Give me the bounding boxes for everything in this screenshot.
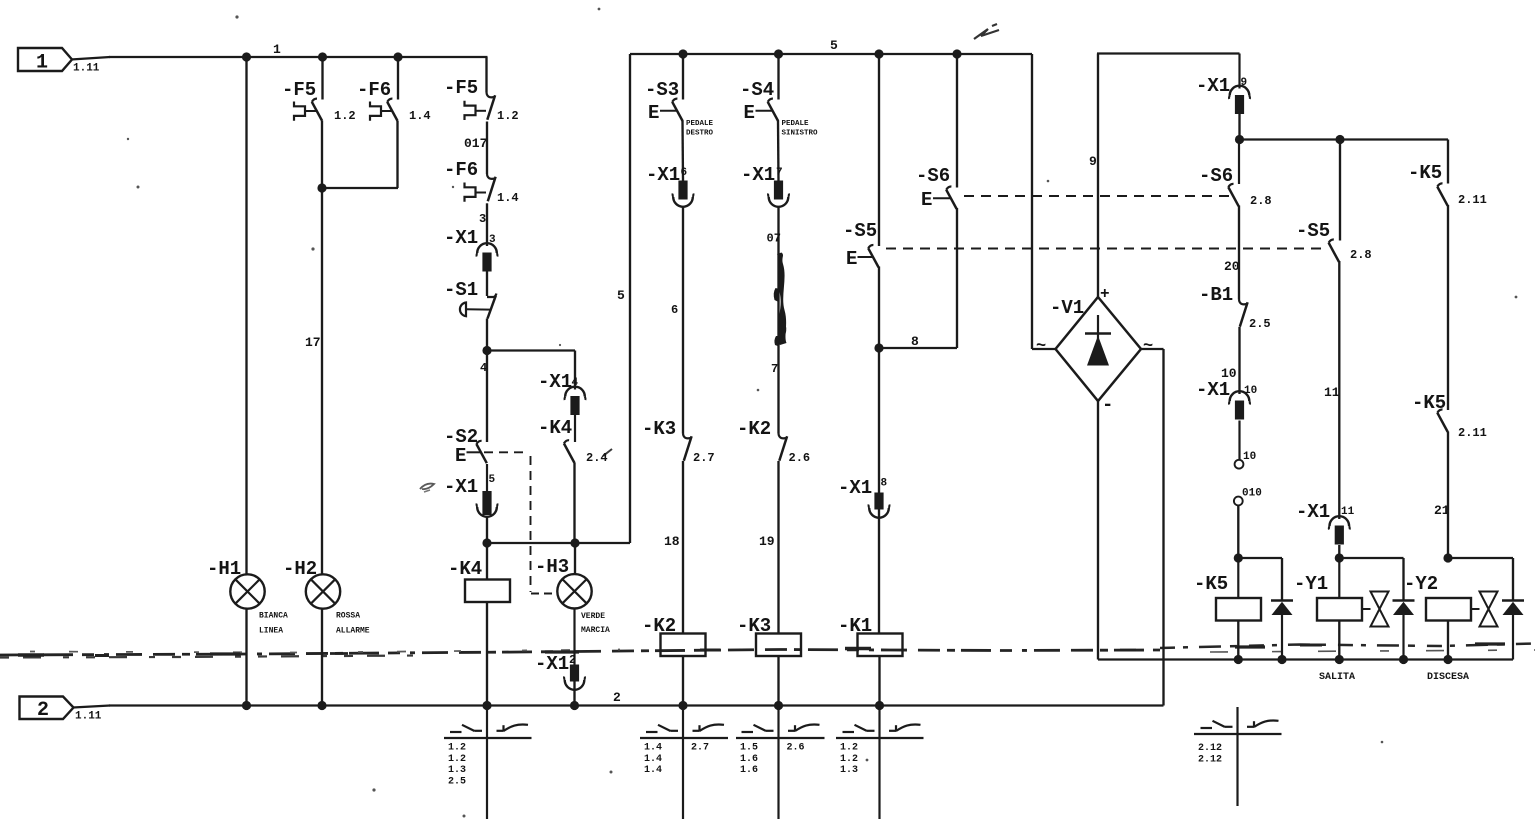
connector pin 010	[1234, 488, 1262, 506]
svg-text:11: 11	[1324, 385, 1340, 400]
svg-text:-X1: -X1	[1296, 501, 1330, 523]
svg-text:010: 010	[1242, 488, 1262, 500]
relay coil K5	[1194, 558, 1261, 621]
contact S6 (NO ref 2.8)	[1199, 140, 1272, 209]
svg-text:-F5: -F5	[282, 79, 316, 101]
node Y2 top junction	[1443, 553, 1452, 562]
svg-text:2.6: 2.6	[787, 743, 805, 754]
bus 2 junction dots	[242, 701, 884, 710]
svg-text:1.4: 1.4	[497, 191, 519, 205]
svg-text:-X1: -X1	[538, 371, 572, 393]
lamp H3 (VERDE MARCIA)	[535, 543, 610, 635]
wire bus 2	[73, 706, 110, 708]
svg-text:2.8: 2.8	[1350, 248, 1372, 262]
svg-text:2: 2	[569, 653, 576, 667]
flyback diode Y1	[1393, 601, 1415, 660]
svg-text:2.7: 2.7	[693, 451, 715, 465]
svg-text:017: 017	[464, 136, 487, 151]
svg-text:1.4: 1.4	[644, 743, 662, 754]
terminal X1:7	[741, 164, 789, 207]
svg-text:1.5: 1.5	[740, 743, 758, 754]
wire S5r to X1:11	[1338, 261, 1340, 519]
wire between K5 contacts	[1447, 205, 1449, 410]
svg-text:1.3: 1.3	[448, 765, 466, 776]
contact K3 NO (ref 2.7)	[642, 418, 715, 465]
svg-text:-K2: -K2	[737, 418, 771, 440]
net flag 1 (line 1, ref 1.11)	[18, 48, 100, 75]
wire V1 minus to DC rail	[1097, 401, 1099, 660]
mechanical link S5 (dashed)	[886, 248, 1326, 250]
svg-text:MARCIA: MARCIA	[581, 626, 610, 635]
svg-text:-Y1: -Y1	[1294, 573, 1328, 595]
wire X1:2 to bus 2	[573, 680, 575, 706]
terminal X1:6	[646, 164, 693, 207]
wire S6r to B1	[1238, 206, 1240, 300]
wire K3 coil to bus 2	[777, 656, 779, 706]
svg-text:11: 11	[1341, 506, 1355, 518]
wire S1 to node 4	[486, 319, 488, 352]
svg-text:E: E	[846, 248, 857, 270]
svg-text:-K1: -K1	[838, 615, 872, 637]
svg-text:-K5: -K5	[1412, 392, 1446, 414]
wire bus 5	[630, 53, 1032, 55]
relay coil K3	[737, 615, 801, 656]
wire X1:9 to node	[1238, 114, 1240, 140]
wire K5 diode branch top	[1238, 557, 1282, 559]
svg-text:1.4: 1.4	[644, 754, 662, 765]
cross-ref table K5	[1236, 707, 1238, 806]
relay coil K2	[642, 615, 706, 656]
switch S6 (E actuator)	[916, 165, 957, 211]
wire K5 coil to rail	[1237, 621, 1239, 660]
wire bus 1	[71, 57, 110, 60]
contact B1 NO (ref 2.5)	[1199, 284, 1271, 331]
svg-text:2.12: 2.12	[1198, 743, 1222, 754]
svg-text:5: 5	[617, 288, 625, 303]
svg-text:1.2: 1.2	[840, 743, 858, 754]
cross-ref table K1	[878, 706, 880, 820]
svg-text:ALLARME: ALLARME	[336, 627, 370, 636]
cross-ref table K2	[682, 706, 684, 820]
switch S5 (E actuator)	[843, 220, 879, 270]
svg-text:-S3: -S3	[645, 79, 679, 101]
svg-text:-F5: -F5	[444, 77, 478, 99]
svg-text:1.2: 1.2	[840, 754, 858, 765]
svg-text:-X1: -X1	[838, 477, 872, 499]
contact K5 lower (NO ref 2.11)	[1412, 392, 1487, 440]
solenoid coil Y1 (SALITA)	[1294, 558, 1362, 683]
wire S5 to node 8	[878, 267, 880, 349]
svg-text:1.2: 1.2	[448, 743, 466, 754]
node 8 junction	[874, 343, 883, 352]
svg-text:7: 7	[776, 167, 783, 179]
svg-text:-S4: -S4	[740, 79, 774, 101]
wire S2 section	[486, 351, 488, 443]
wire S6 column	[956, 54, 958, 188]
svg-text:-S5: -S5	[1296, 220, 1330, 242]
svg-text:~: ~	[1143, 337, 1153, 356]
svg-text:18: 18	[664, 534, 680, 549]
node Y1 top junction	[1335, 553, 1344, 562]
svg-text:-X1: -X1	[535, 653, 569, 675]
svg-text:7: 7	[771, 362, 778, 376]
svg-text:3: 3	[479, 212, 486, 226]
wire node row to line 5 riser	[487, 542, 630, 544]
svg-text:-K4: -K4	[538, 417, 572, 439]
svg-text:1.2: 1.2	[448, 754, 466, 765]
wire K3ctc to K2 coil	[682, 461, 684, 634]
svg-text:SINISTRO: SINISTRO	[782, 130, 819, 138]
wire H1 column	[245, 57, 247, 575]
wire X1:5 to node	[486, 516, 488, 544]
wire K5 contact column	[1447, 140, 1449, 184]
terminal X1:2	[535, 609, 585, 690]
switch S2 (E actuator)	[444, 426, 487, 467]
wire 010 to K5 node	[1237, 506, 1239, 559]
bus 1 junction dots	[242, 52, 403, 61]
svg-text:19: 19	[759, 534, 775, 549]
wire DC minus rail	[1098, 658, 1513, 660]
svg-text:LINEA: LINEA	[259, 627, 283, 636]
wire F5a/H2 column	[321, 57, 323, 100]
switch S1 (stop pushbutton)	[444, 272, 496, 319]
svg-text:4: 4	[572, 377, 579, 389]
svg-text:5: 5	[489, 474, 496, 486]
svg-text:+: +	[1100, 285, 1110, 303]
contact K4 NO (ref 2.4)	[538, 415, 608, 465]
svg-text:1.6: 1.6	[740, 765, 758, 776]
svg-text:1: 1	[36, 52, 48, 75]
DC plus rail junctions	[1235, 135, 1244, 144]
svg-text:2.6: 2.6	[789, 451, 811, 465]
flyback diode Y2	[1502, 601, 1524, 660]
wire DC plus rail	[1240, 138, 1449, 140]
svg-text:1.11: 1.11	[75, 711, 102, 723]
svg-text:2.12: 2.12	[1198, 754, 1222, 765]
cross-ref table K4	[486, 706, 488, 820]
svg-text:-K3: -K3	[642, 418, 676, 440]
svg-text:2.4: 2.4	[586, 451, 608, 465]
svg-text:SALITA: SALITA	[1319, 672, 1355, 683]
svg-text:20: 20	[1224, 259, 1240, 274]
wire S4 column	[777, 54, 779, 100]
svg-text:BIANCA: BIANCA	[259, 612, 288, 621]
svg-text:-F6: -F6	[357, 79, 391, 101]
switch S3 (PEDALE DESTRO)	[645, 79, 714, 138]
svg-text:E: E	[744, 102, 755, 124]
wire S5r column	[1339, 140, 1341, 241]
svg-text:2.5: 2.5	[1249, 317, 1271, 331]
svg-text:1.11: 1.11	[73, 63, 100, 75]
svg-text:1.4: 1.4	[644, 765, 662, 776]
svg-text:-B1: -B1	[1199, 284, 1233, 306]
svg-text:2.5: 2.5	[448, 776, 466, 787]
svg-text:1.4: 1.4	[409, 109, 431, 123]
svg-text:-H1: -H1	[207, 558, 241, 580]
terminal X1:8	[838, 477, 889, 518]
svg-text:-V1: -V1	[1050, 297, 1084, 319]
terminal X1:10	[1196, 379, 1257, 420]
svg-text:1.2: 1.2	[334, 109, 356, 123]
svg-text:-X1: -X1	[1196, 75, 1230, 97]
lamp H1 (BIANCA LINEA)	[207, 558, 288, 636]
mechanical link S6 (dashed)	[964, 195, 1230, 197]
svg-text:-S6: -S6	[1199, 165, 1233, 187]
svg-text:1: 1	[273, 42, 281, 57]
valve symbol Y1	[1362, 592, 1389, 627]
connector pin 10	[1235, 421, 1257, 469]
terminal X1:3	[444, 227, 497, 272]
wire F5/F6 main column	[485, 57, 487, 93]
svg-text:2: 2	[613, 690, 621, 705]
terminal X1:9	[1196, 54, 1250, 115]
node row 543 junctions	[482, 538, 491, 547]
svg-text:2.11: 2.11	[1458, 426, 1487, 440]
node K5 top junction	[1234, 553, 1243, 562]
wire Y2 diode branch top	[1448, 557, 1513, 559]
terminal X1:5	[444, 464, 497, 517]
wire X1:11 to Y1 node	[1338, 545, 1340, 559]
svg-text:-X1: -X1	[444, 227, 478, 249]
terminal X1:11	[1296, 501, 1355, 545]
wire F6a branch	[397, 57, 399, 100]
svg-text:10: 10	[1243, 451, 1256, 463]
svg-text:-X1: -X1	[1196, 379, 1230, 401]
svg-text:9: 9	[1241, 77, 1248, 89]
svg-text:6: 6	[681, 167, 688, 179]
wire X1:8 to K1 coil	[878, 508, 880, 634]
contact K5 upper (NO ref 2.11)	[1408, 162, 1487, 207]
wire K4 contact to node	[573, 462, 575, 543]
wire B1 to X1:10	[1238, 327, 1240, 394]
svg-text:E: E	[455, 445, 466, 467]
wire line 9 (V1 plus riser)	[1097, 54, 1099, 298]
junction 17/F6a	[317, 183, 326, 192]
mechanical link S2 to H3 (dashed)	[484, 451, 529, 453]
wire K2 coil to bus 2	[682, 656, 684, 706]
svg-text:8: 8	[881, 478, 888, 490]
svg-text:PEDALE: PEDALE	[782, 120, 810, 128]
bridge rectifier V1	[1036, 285, 1153, 416]
svg-text:-S2: -S2	[444, 426, 478, 448]
svg-text:2.7: 2.7	[691, 743, 709, 754]
svg-text:8: 8	[911, 334, 919, 349]
DC minus rail junction dots	[1234, 655, 1453, 664]
valve symbol Y2	[1471, 592, 1498, 627]
contact F6 main (NC ref 1.4)	[444, 159, 519, 205]
lamp H2 (ROSSA ALLARME)	[283, 558, 370, 636]
svg-text:2.8: 2.8	[1250, 194, 1272, 208]
svg-text:VERDE: VERDE	[581, 612, 605, 621]
svg-text:E: E	[921, 189, 932, 211]
wire Y2 coil to rail	[1447, 621, 1449, 660]
wire S6 to node8 row	[956, 208, 958, 348]
wire S5 column	[878, 54, 880, 246]
contact F5 aux (NC ref 1.2)	[282, 79, 356, 123]
contact F6 aux (NC ref 1.4)	[357, 79, 431, 123]
net flag 2 (line 2, ref 1.11)	[20, 697, 102, 723]
svg-text:10: 10	[1244, 385, 1257, 397]
svg-text:-Y2: -Y2	[1404, 573, 1438, 595]
wire node4 branch to X1:4	[487, 349, 575, 351]
svg-text:-K4: -K4	[448, 558, 482, 580]
ink blot artifact on wire 7	[777, 253, 787, 346]
svg-text:6: 6	[671, 303, 678, 317]
bus 5 junction dots	[678, 49, 961, 58]
svg-text:-X1: -X1	[444, 476, 478, 498]
flyback diode K5	[1271, 601, 1293, 660]
svg-text:-X1: -X1	[646, 164, 680, 186]
svg-text:PEDALE: PEDALE	[686, 120, 714, 128]
svg-text:-S6: -S6	[916, 165, 950, 187]
contact K2 NO (ref 2.6)	[737, 418, 810, 465]
terminal X1:4	[538, 371, 585, 415]
cross-ref table K3	[777, 706, 779, 820]
svg-text:-S5: -S5	[843, 220, 877, 242]
wire K2ctc to K3 coil	[777, 461, 779, 634]
wire bus5 to V1 left AC	[1031, 54, 1033, 349]
wire S5col to X1:8	[878, 348, 880, 493]
svg-text:1.6: 1.6	[740, 754, 758, 765]
svg-text:-K5: -K5	[1194, 573, 1228, 595]
svg-text:-S1: -S1	[444, 279, 478, 301]
svg-text:DISCESA: DISCESA	[1427, 672, 1469, 683]
svg-text:-F6: -F6	[444, 159, 478, 181]
svg-text:2.11: 2.11	[1458, 193, 1487, 207]
relay coil K4	[448, 543, 510, 706]
wire K1 coil to bus 2	[878, 656, 880, 706]
svg-text:9: 9	[1089, 154, 1097, 169]
svg-text:2: 2	[37, 699, 49, 722]
svg-text:ROSSA: ROSSA	[336, 612, 360, 621]
svg-text:-K5: -K5	[1408, 162, 1442, 184]
svg-text:5: 5	[830, 38, 838, 53]
wire S3 column	[682, 54, 684, 100]
svg-text:1.2: 1.2	[497, 109, 519, 123]
svg-text:07: 07	[767, 232, 781, 246]
wire Y1 coil to rail	[1338, 621, 1340, 660]
switch S4 (PEDALE SINISTRO)	[740, 79, 818, 138]
svg-text:DESTRO: DESTRO	[686, 130, 714, 138]
wire V1 right AC to bus 2	[1141, 348, 1164, 350]
wire node8 to S6 branch	[879, 347, 957, 349]
wire Y1 diode branch top	[1339, 557, 1403, 559]
solenoid coil Y2 (DISCESA)	[1404, 573, 1471, 683]
svg-text:17: 17	[305, 335, 321, 350]
contact S5 (NO ref 2.8)	[1296, 220, 1372, 262]
svg-text:1.3: 1.3	[840, 765, 858, 776]
svg-text:-K3: -K3	[737, 615, 771, 637]
svg-text:-X1: -X1	[741, 164, 775, 186]
node 4 junction	[482, 346, 491, 355]
svg-text:3: 3	[489, 234, 496, 246]
wire K5 lower to Y2 node	[1447, 432, 1449, 559]
svg-text:E: E	[648, 102, 659, 124]
contact F5 main (NC ref 1.2)	[444, 77, 519, 123]
relay coil K1	[838, 615, 903, 656]
svg-text:-: -	[1102, 394, 1113, 416]
svg-text:-K2: -K2	[642, 615, 676, 637]
svg-text:-H3: -H3	[535, 556, 569, 578]
svg-text:~: ~	[1036, 337, 1046, 356]
svg-text:-H2: -H2	[283, 558, 317, 580]
